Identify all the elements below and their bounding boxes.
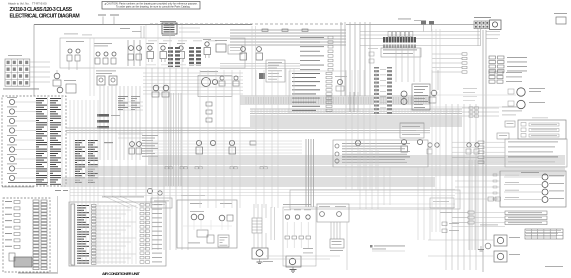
pump control box xyxy=(412,84,430,110)
small box on wire xyxy=(497,133,509,139)
monitor gauges column xyxy=(7,96,17,99)
center-left long verticals xyxy=(199,70,201,208)
wires from control unit xyxy=(96,205,136,207)
fuse table xyxy=(525,229,563,239)
relay R-2 xyxy=(159,42,167,45)
solenoid SV-1 xyxy=(542,174,548,180)
monitor label bottom xyxy=(8,182,48,183)
fuse list block xyxy=(381,48,421,57)
extra option row xyxy=(452,226,505,228)
wires from fuse box right xyxy=(179,27,200,29)
relay R-3 xyxy=(177,42,185,45)
cluster: battery/starter components left xyxy=(127,40,129,66)
rows of circuit labels right of center xyxy=(300,36,324,39)
resistor block (gray) xyxy=(14,257,32,267)
wires to wiper motors xyxy=(430,94,516,96)
relay cluster RC-2 xyxy=(257,47,262,52)
heater label xyxy=(188,242,200,245)
svg-text:Attach to Vol. No. TT-RT-E-0: Attach to Vol. No. TT-RT-E-00 xyxy=(8,2,47,6)
dark component left of box xyxy=(259,73,265,79)
duct sensor upper box xyxy=(317,204,349,222)
relay cluster far right 1 xyxy=(428,143,432,147)
alternator G1 xyxy=(200,70,218,73)
sensor label rows left of relay R-6 xyxy=(142,134,158,137)
wires from CN-3 xyxy=(30,61,50,63)
connector stack column a xyxy=(33,200,39,202)
heater unit box xyxy=(177,200,237,248)
lower horizontal link wires xyxy=(266,255,340,257)
vertical harness bundle center xyxy=(145,68,147,250)
relay R-7 xyxy=(210,140,215,145)
vertical drops below key switch xyxy=(477,29,479,46)
relay pin labels row xyxy=(148,40,157,43)
wire from key switch down xyxy=(482,30,484,272)
diode D-1 xyxy=(250,141,256,145)
wire: left vertical drop xyxy=(33,25,35,97)
left connector block CN-2 label xyxy=(8,54,22,57)
heater box inner wires xyxy=(193,220,195,230)
verticals to radio area xyxy=(417,167,419,240)
relay R-9 xyxy=(355,140,360,145)
label above heater box xyxy=(181,194,205,197)
flasher cluster xyxy=(431,90,437,96)
monitor box inner verticals xyxy=(47,97,49,185)
dark ladder connector pair xyxy=(168,47,173,67)
svg-text:AIR CONDITIONER UNIT: AIR CONDITIONER UNIT xyxy=(102,271,140,276)
lateral wires upper center xyxy=(143,72,243,74)
pump area box outline xyxy=(290,190,460,209)
upper right option box xyxy=(505,139,567,167)
relay box small xyxy=(505,121,515,127)
relay R-10 xyxy=(401,139,406,144)
pressure switch PS-3 xyxy=(304,209,311,212)
ground radio xyxy=(480,246,482,249)
relay cluster RC-1 xyxy=(241,47,246,52)
key switch SW-1 xyxy=(490,20,502,30)
sensor cluster above monitor xyxy=(66,84,76,93)
bus lines lower set xyxy=(220,63,300,65)
junction cluster xyxy=(349,92,351,112)
svg-text:ZX110-3 CLASS /120-3 CLASS: ZX110-3 CLASS /120-3 CLASS xyxy=(10,7,73,13)
blower ladder connector xyxy=(252,218,262,233)
fuse box FB-1 xyxy=(162,23,177,34)
switch panel label xyxy=(18,272,58,275)
mix actuator box xyxy=(197,230,208,237)
relay cluster middle xyxy=(96,70,116,73)
antenna circle xyxy=(485,243,491,249)
diagonal harness bends xyxy=(104,196,130,208)
vertical wires right side xyxy=(468,160,470,250)
blower resistor box xyxy=(218,235,229,247)
solenoid unit wire rows xyxy=(504,176,541,178)
center bus wires xyxy=(230,29,346,31)
box below pump control xyxy=(400,123,424,138)
drawing number bottom right xyxy=(545,265,563,268)
option connector box right xyxy=(518,120,566,139)
AC harness label above box xyxy=(102,196,144,199)
relay R-1 xyxy=(146,42,154,45)
harness label xyxy=(3,88,39,91)
small component cluster center-2 xyxy=(234,76,238,80)
speaker SP-2 xyxy=(494,251,507,262)
vertical harness bundle left-center xyxy=(99,86,101,160)
fuel pump cluster xyxy=(54,73,60,79)
speaker SP-1 xyxy=(494,235,507,246)
thick vertical harness to lower area xyxy=(305,139,307,207)
wire from key switch 3 xyxy=(360,38,480,40)
blower motor wires xyxy=(253,204,255,218)
cluster left of strips xyxy=(369,52,374,56)
solenoid circles xyxy=(401,91,407,97)
solenoid SV-4 xyxy=(542,197,548,203)
wire: main horizontal bus xyxy=(34,24,252,26)
compressor cluster box xyxy=(283,207,316,266)
long verticals through enclosure xyxy=(89,38,91,96)
hatch ticks on band A xyxy=(245,97,247,104)
connector rows to option box xyxy=(478,141,484,144)
engine harness rows right xyxy=(432,53,462,55)
vertical drops from boundary into enclosure xyxy=(145,25,147,68)
clusters above enclosure right xyxy=(120,27,130,30)
wire from key switch down 2 xyxy=(485,30,487,240)
wire band F xyxy=(85,166,565,168)
battery connector pair xyxy=(421,21,426,25)
monitor pin text column 2 xyxy=(50,98,61,99)
upper right long verticals xyxy=(431,29,433,232)
svg-text:To order parts on the drawing,: To order parts on the drawing, be sure t… xyxy=(116,5,191,8)
wires to speakers xyxy=(428,239,494,241)
left vertical harness from monitor down xyxy=(69,100,71,264)
solenoid SV-2 xyxy=(542,182,548,188)
wiper motor M1 xyxy=(517,88,525,96)
wire from key switch 4 xyxy=(360,45,480,47)
glow plug chain xyxy=(206,102,212,106)
vertical harness continuation to bottom xyxy=(103,160,105,196)
pump connector strip 1 xyxy=(374,67,379,114)
relay R-11 xyxy=(417,139,422,144)
labels above enclosure xyxy=(64,33,78,36)
wire down from duct area xyxy=(346,222,348,270)
pressure switch PS-2 xyxy=(294,209,301,212)
pump connector small box xyxy=(430,198,454,208)
components in relay box 2 xyxy=(335,144,339,148)
cluster: switch components xyxy=(94,42,112,45)
servo motor SM-2 xyxy=(220,202,232,205)
resistor array block xyxy=(97,114,109,117)
small connector top far right xyxy=(556,17,566,24)
verticals right-center to bottom xyxy=(359,150,361,209)
inline fuse components on bus xyxy=(262,29,268,31)
control unit connector column xyxy=(92,205,97,207)
compressor clutch xyxy=(286,256,301,267)
blower motor BM-1 xyxy=(252,248,268,259)
relay cluster far right 2 xyxy=(467,143,471,147)
wiper motor connector xyxy=(508,89,514,94)
ECM pin text block col 1 xyxy=(75,140,85,141)
labels between connector strips xyxy=(380,68,386,71)
blower label xyxy=(263,260,273,263)
key switch connector CN-1 xyxy=(474,21,489,29)
footnote text xyxy=(370,245,373,248)
connector strip outputs going down xyxy=(395,48,397,82)
connector text block mid-left xyxy=(118,95,128,98)
monitor pin text column 1 xyxy=(36,98,47,99)
lateral web above bands xyxy=(145,140,302,142)
starter motor cluster xyxy=(153,85,159,91)
wire band G xyxy=(62,177,435,179)
ECM pin text block col 2 xyxy=(88,140,98,141)
fuel sender cluster lower-left xyxy=(147,188,152,193)
connector stack column b xyxy=(41,200,47,202)
fuse symbol row xyxy=(388,32,391,37)
net label P-1,2,5 / D-1,2,7 xyxy=(98,15,106,16)
big enclosure box top xyxy=(60,38,245,68)
vertical harness bundle center-right xyxy=(340,22,342,96)
relay R-6 xyxy=(196,140,201,145)
rows left of wiper motors xyxy=(463,87,477,90)
net label P/D bottom xyxy=(55,189,61,192)
wire band D xyxy=(66,127,430,129)
switch panel dashed enclosure xyxy=(3,198,50,272)
compressor cluster header xyxy=(283,203,311,206)
wires into solenoid unit xyxy=(455,174,500,176)
pressure switch PS-1 xyxy=(284,209,291,212)
relay R-5 xyxy=(203,38,211,41)
wires middle-left lateral xyxy=(118,101,143,103)
sensor cluster with circle mid xyxy=(335,75,347,78)
wire band C xyxy=(250,115,462,117)
connector rows grid right xyxy=(489,71,495,74)
injector cluster xyxy=(130,142,135,147)
control unit vertical label strip xyxy=(71,204,75,265)
two-pin connectors on band xyxy=(165,167,168,169)
wire band E xyxy=(148,155,565,157)
solenoid valve unit box xyxy=(500,171,566,207)
duct sensor label xyxy=(330,249,343,252)
relay R-8 xyxy=(229,140,234,145)
verticals from bus to enclosure box xyxy=(251,26,253,96)
main harness connector strip (dark) xyxy=(383,37,416,43)
compressor labels xyxy=(303,247,313,250)
label above key switch xyxy=(474,16,491,19)
duct sensor wires xyxy=(330,222,332,239)
blower ground xyxy=(259,259,261,262)
air conditioner unit enclosure xyxy=(69,202,166,266)
option rows right xyxy=(452,212,468,214)
connector grid CN-3 xyxy=(5,59,30,86)
cab harness verticals xyxy=(445,104,447,270)
wire rows with connectors mid-right xyxy=(462,107,499,109)
mode actuator small box xyxy=(207,235,214,243)
ground for compressor xyxy=(292,267,294,269)
dashed boundary line (cab) xyxy=(150,23,345,25)
cluster: horn/lamp components xyxy=(66,40,84,43)
svg-text:ELECTRICAL CIRCUIT DIAGRAM: ELECTRICAL CIRCUIT DIAGRAM xyxy=(10,14,80,20)
cluster above fusible links xyxy=(398,18,411,21)
fuse box label xyxy=(160,20,176,23)
small component cluster center-1 xyxy=(220,76,224,80)
wires to AC and pump area xyxy=(70,189,455,191)
washer motor M2 xyxy=(517,100,525,108)
wire from key switch 1 xyxy=(360,31,480,33)
wire band B xyxy=(250,108,462,110)
diode row xyxy=(285,236,290,239)
switch rows xyxy=(5,200,12,203)
wire band A xyxy=(240,95,430,97)
bottom connect verticals xyxy=(270,207,272,240)
dense gray strip in center bundle xyxy=(165,93,167,186)
label box right of fusible link xyxy=(228,45,242,54)
ECU pin list rows xyxy=(289,71,346,113)
ECM label xyxy=(104,142,113,143)
servo motor SM-1 xyxy=(190,202,202,205)
labels cluster right of wires xyxy=(502,106,518,109)
pump connector strip 2 xyxy=(387,67,392,114)
verticals right-center short xyxy=(383,167,385,205)
hatch ticks on band B xyxy=(251,109,253,114)
AC harness verticals xyxy=(99,205,101,264)
AC sensor pair column xyxy=(140,204,144,207)
mid right verticals xyxy=(345,70,347,190)
small box right of relay clusters xyxy=(266,60,285,82)
fusible link box xyxy=(216,44,226,52)
pressure switch boxes below solenoid xyxy=(488,197,494,201)
dark ladder connector pair 2 xyxy=(189,47,194,66)
wire down left of AC box xyxy=(57,196,59,272)
relay bottom pin labels xyxy=(146,64,156,67)
wire from key switch 2 xyxy=(360,34,480,36)
relay rows far right upper xyxy=(489,56,496,59)
secondary connector strip xyxy=(383,45,416,49)
monitor harness label below box xyxy=(2,186,34,189)
horizontal feed lines to pump box xyxy=(316,203,455,205)
solenoid SV-3 xyxy=(542,189,548,195)
labels on key switch wires xyxy=(486,30,500,33)
caution box xyxy=(102,2,200,10)
relay box 2 with list xyxy=(333,140,428,167)
fuse box sub-label xyxy=(162,34,175,37)
monitor unit dashed enclosure xyxy=(2,96,66,186)
control unit pin rows xyxy=(77,205,89,206)
wire to key switch top xyxy=(346,24,474,26)
small box left bottom xyxy=(9,253,15,261)
duct sensor box xyxy=(330,239,344,248)
left cluster radio diodes xyxy=(440,211,452,214)
